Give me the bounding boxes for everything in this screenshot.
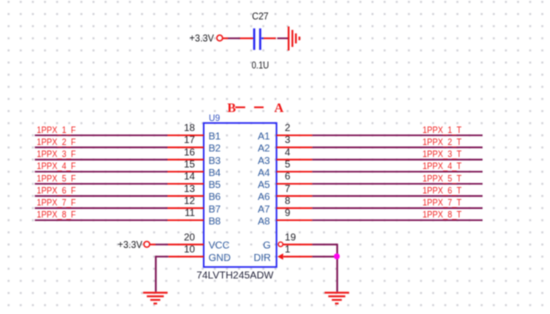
svg-text:1PPX_1_T: 1PPX_1_T bbox=[423, 125, 462, 135]
svg-text:+3.3V: +3.3V bbox=[118, 240, 143, 251]
svg-text:20: 20 bbox=[184, 232, 196, 243]
svg-text:1PPX_8_F: 1PPX_8_F bbox=[37, 210, 76, 220]
svg-text:1PPX_2_T: 1PPX_2_T bbox=[423, 137, 462, 147]
svg-text:5: 5 bbox=[285, 160, 291, 171]
svg-text:1PPX_3_T: 1PPX_3_T bbox=[423, 149, 462, 159]
svg-text:B7: B7 bbox=[209, 204, 222, 215]
svg-text:1PPX_2_F: 1PPX_2_F bbox=[37, 137, 76, 147]
svg-text:1PPX_3_F: 1PPX_3_F bbox=[37, 149, 76, 159]
svg-text:B2: B2 bbox=[209, 144, 222, 155]
svg-text:A4: A4 bbox=[258, 168, 271, 179]
svg-text:10: 10 bbox=[184, 244, 196, 255]
svg-text:12: 12 bbox=[184, 196, 196, 207]
svg-text:B5: B5 bbox=[209, 180, 222, 191]
svg-text:18: 18 bbox=[184, 123, 196, 134]
svg-text:9: 9 bbox=[285, 208, 291, 219]
svg-text:GND: GND bbox=[209, 253, 231, 264]
svg-text:11: 11 bbox=[185, 208, 196, 219]
svg-text:3: 3 bbox=[285, 135, 291, 146]
svg-text:VCC: VCC bbox=[209, 241, 230, 252]
svg-text:U9: U9 bbox=[209, 113, 220, 124]
svg-text:1PPX_7_T: 1PPX_7_T bbox=[423, 198, 462, 208]
svg-text:16: 16 bbox=[184, 147, 196, 158]
svg-text:1PPX_4_T: 1PPX_4_T bbox=[423, 161, 462, 171]
svg-text:C27: C27 bbox=[252, 11, 269, 22]
svg-text:1PPX_6_T: 1PPX_6_T bbox=[423, 186, 462, 196]
svg-text:B1: B1 bbox=[209, 132, 222, 143]
svg-text:A1: A1 bbox=[258, 132, 271, 143]
svg-text:1PPX_8_T: 1PPX_8_T bbox=[423, 210, 462, 220]
svg-text:A5: A5 bbox=[258, 180, 271, 191]
svg-text:1PPX_5_F: 1PPX_5_F bbox=[37, 173, 76, 183]
svg-text:19: 19 bbox=[285, 232, 297, 243]
svg-text:8: 8 bbox=[285, 196, 291, 207]
svg-text:A2: A2 bbox=[258, 144, 271, 155]
svg-text:6: 6 bbox=[285, 172, 291, 183]
svg-text:7: 7 bbox=[285, 184, 291, 195]
svg-text:17: 17 bbox=[184, 135, 196, 146]
svg-text:+3.3V: +3.3V bbox=[190, 34, 215, 45]
svg-text:B6: B6 bbox=[209, 192, 222, 203]
svg-text:B: B bbox=[227, 100, 236, 115]
svg-text:G: G bbox=[263, 241, 271, 252]
svg-text:A8: A8 bbox=[258, 217, 271, 228]
svg-text:B4: B4 bbox=[209, 168, 222, 179]
svg-text:B8: B8 bbox=[209, 217, 222, 228]
svg-text:A6: A6 bbox=[258, 192, 271, 203]
svg-text:DIR: DIR bbox=[254, 253, 271, 264]
svg-text:13: 13 bbox=[184, 184, 196, 195]
svg-text:1: 1 bbox=[285, 244, 291, 255]
svg-text:2: 2 bbox=[285, 123, 291, 134]
svg-text:A: A bbox=[274, 100, 284, 115]
svg-text:1PPX_7_F: 1PPX_7_F bbox=[37, 198, 76, 208]
svg-text:0.1U: 0.1U bbox=[252, 60, 269, 71]
svg-text:1PPX_1_F: 1PPX_1_F bbox=[37, 125, 76, 135]
svg-text:1PPX_6_F: 1PPX_6_F bbox=[37, 186, 76, 196]
svg-text:74LVTH245ADW: 74LVTH245ADW bbox=[197, 271, 275, 282]
svg-text:14: 14 bbox=[184, 172, 196, 183]
svg-text:B3: B3 bbox=[209, 156, 222, 167]
svg-text:A7: A7 bbox=[258, 204, 271, 215]
svg-text:15: 15 bbox=[184, 160, 196, 171]
svg-text:4: 4 bbox=[285, 147, 291, 158]
svg-text:1PPX_5_T: 1PPX_5_T bbox=[423, 173, 462, 183]
svg-text:A3: A3 bbox=[258, 156, 271, 167]
svg-text:1PPX_4_F: 1PPX_4_F bbox=[37, 161, 76, 171]
